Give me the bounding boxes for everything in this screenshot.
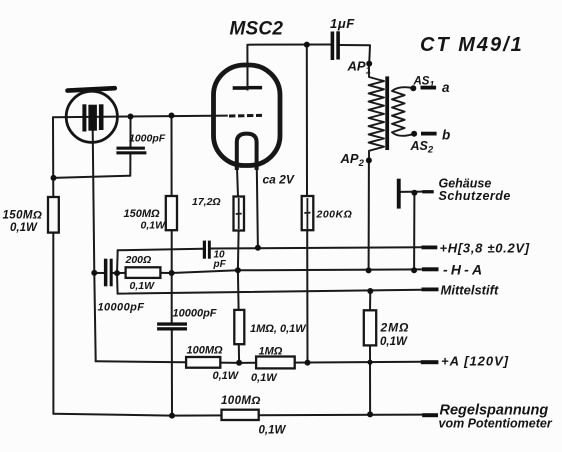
capacitor 10000pF horizontal plates bbox=[157, 322, 187, 325]
resistor 150M 0.1W left box bbox=[48, 197, 59, 233]
node Regelspannung 2M junction bbox=[367, 411, 373, 417]
resistor 200K box bbox=[302, 196, 314, 230]
svg-text:MSC2: MSC2 bbox=[230, 19, 284, 40]
node 1000pF top junction bbox=[128, 114, 134, 120]
resistor 17.2 ohm box bbox=[234, 197, 245, 231]
svg-text:150MΩ: 150MΩ bbox=[3, 210, 43, 222]
capsule K1 circle bbox=[66, 91, 117, 142]
capacitor 10000pF plates (vertical pair) bbox=[104, 259, 108, 287]
resistor 1M box bbox=[256, 357, 295, 369]
wire cathode right leg to +H line bbox=[257, 168, 258, 248]
wire 2M branch vertical bbox=[369, 291, 371, 310]
tube V1 envelope bbox=[214, 65, 281, 166]
node Gehaeuse -H-A junction bbox=[411, 267, 417, 273]
svg-text:+H[3,8 ±0.2V]: +H[3,8 ±0.2V] bbox=[440, 241, 530, 256]
node Gehaeuse junction bbox=[411, 190, 417, 196]
wire left vertical: capsule left down to 150M and Regelspannung corner bbox=[52, 117, 54, 197]
svg-text:200KΩ: 200KΩ bbox=[316, 209, 353, 221]
wire 1000pF top branch bbox=[130, 117, 132, 148]
svg-text:2MΩ: 2MΩ bbox=[380, 321, 410, 335]
svg-text:100MΩ: 100MΩ bbox=[221, 395, 261, 407]
capsule K1 electrode left bar bbox=[82, 104, 86, 131]
capsule K1 electrode middle bar bbox=[88, 105, 97, 131]
svg-text:10000pF: 10000pF bbox=[98, 302, 145, 314]
terminal Regelspannung bar bbox=[422, 413, 438, 417]
svg-text:pF: pF bbox=[213, 259, 227, 270]
node AP2 -H-A junction bbox=[366, 267, 372, 273]
wire mid 150M branch vertical bbox=[171, 116, 173, 197]
svg-text:Schutzerde: Schutzerde bbox=[439, 189, 511, 203]
wire grid line: capsule to tube grid bbox=[53, 116, 227, 118]
svg-text:0,1W: 0,1W bbox=[380, 336, 408, 348]
svg-text:b: b bbox=[442, 128, 450, 143]
chassis bar Gehaeuse Schutzerde bbox=[397, 179, 401, 209]
wire AP2 down to -H-A bbox=[368, 160, 370, 270]
node cathode +H junction bbox=[255, 245, 261, 251]
node AS2 bbox=[411, 131, 417, 137]
tube V1 anode lead inside bbox=[247, 65, 249, 91]
resistor 100M bottom box bbox=[222, 410, 259, 420]
wire 1000pF bottom to left junction bbox=[54, 154, 131, 178]
resistor 150M 0.1W mid box bbox=[166, 196, 177, 230]
node anode line 200K junction bbox=[304, 42, 310, 48]
svg-text:1MΩ: 1MΩ bbox=[259, 346, 283, 358]
node AP1 bbox=[366, 61, 372, 67]
svg-text:0,1W: 0,1W bbox=[213, 370, 240, 382]
capsule K1 top plate bar bbox=[68, 88, 115, 90]
node 200K +A junction bbox=[305, 360, 311, 366]
terminal +H bar bbox=[422, 246, 438, 250]
svg-text:1MΩ, 0,1W: 1MΩ, 0,1W bbox=[250, 323, 307, 335]
resistor 100M box bbox=[186, 357, 220, 368]
tube V1 grid dashes bbox=[229, 114, 262, 118]
resistor 2M 0.1W box bbox=[364, 310, 376, 345]
capsule K1 electrode right bar bbox=[99, 104, 104, 130]
terminal Gehaeuse bar bbox=[422, 190, 433, 193]
wire Regelspannung line bbox=[53, 414, 422, 416]
svg-text:10000pF: 10000pF bbox=[173, 308, 217, 320]
resistor 200 ohm box bbox=[126, 267, 161, 278]
svg-text:1000pF: 1000pF bbox=[129, 133, 166, 145]
node 2M +A junction bbox=[367, 360, 372, 365]
wire Gehaeuse link and down to -H-A bbox=[401, 191, 423, 193]
node AS1 bbox=[410, 85, 416, 91]
node A capsule junction bbox=[91, 270, 97, 276]
terminal a bar bbox=[421, 86, 437, 90]
wire 1M 0.1W branch vertical bbox=[237, 270, 240, 310]
transformer T1 secondary winding bbox=[392, 87, 414, 136]
svg-text:200Ω: 200Ω bbox=[125, 254, 152, 266]
node left 1000pF junction bbox=[51, 175, 57, 181]
svg-text:+A [120V]: +A [120V] bbox=[441, 354, 509, 369]
transformer T1 core bbox=[385, 76, 389, 150]
svg-text:Mittelstift: Mittelstift bbox=[441, 283, 499, 298]
wire anode lead and top line to 1uF bbox=[247, 45, 330, 87]
svg-text:1μF: 1μF bbox=[330, 16, 355, 31]
transformer T1 primary winding bbox=[369, 64, 384, 161]
svg-text:0,1W: 0,1W bbox=[10, 222, 38, 234]
svg-text:0,1W: 0,1W bbox=[259, 425, 287, 437]
node 150M mid top junction bbox=[169, 113, 175, 119]
node Regelspannung left junction bbox=[169, 413, 175, 419]
wire cathode left leg to 17.2 ohm bbox=[237, 168, 238, 197]
tube V1 cathode arch bbox=[237, 134, 257, 170]
wire node B vertical (+H to Mittelstift bends) bbox=[116, 250, 119, 293]
capacitor 1uF plates bbox=[331, 32, 335, 61]
wire 10000pF left link from node A bbox=[94, 272, 104, 274]
tube V1 anode plate bbox=[233, 86, 247, 90]
resistor 1M 0.1W vertical box bbox=[234, 310, 244, 344]
svg-text:-H-A: -H-A bbox=[443, 262, 485, 278]
svg-text:vom Potentiometer: vom Potentiometer bbox=[439, 417, 553, 431]
svg-text:0,1W: 0,1W bbox=[130, 280, 156, 292]
wire +A line bbox=[96, 361, 423, 363]
terminal +A bar bbox=[421, 360, 439, 364]
node C 200 ohm right junction bbox=[169, 270, 175, 276]
svg-text:0,1W: 0,1W bbox=[141, 220, 167, 232]
svg-text:ca 2V: ca 2V bbox=[263, 173, 295, 187]
svg-text:100MΩ: 100MΩ bbox=[187, 345, 224, 357]
wire 200 ohm row / -H-A line bbox=[117, 272, 126, 274]
svg-text:a: a bbox=[442, 80, 450, 95]
capacitor 1000pF plates bbox=[117, 147, 145, 150]
node 2M Mittelstift junction bbox=[367, 288, 373, 294]
svg-text:CT M49/1: CT M49/1 bbox=[420, 34, 524, 56]
wire 1uF to transformer AP1 corner bbox=[340, 45, 370, 64]
svg-text:0,1W: 0,1W bbox=[251, 372, 278, 384]
terminal Mittelstift bar bbox=[422, 288, 439, 292]
node AP2 bbox=[366, 157, 372, 163]
wire +H line bbox=[118, 249, 203, 251]
svg-text:150MΩ: 150MΩ bbox=[124, 208, 161, 220]
wire Mittelstift line bbox=[118, 290, 423, 294]
node 17.2 bottom -H-A junction bbox=[235, 267, 241, 273]
wire 200K branch vertical bbox=[306, 45, 308, 196]
node B 10000pF junction bbox=[114, 270, 120, 276]
node 1M +A junction bbox=[236, 360, 242, 366]
terminal b bar bbox=[421, 132, 437, 136]
capacitor 10pF plates bbox=[203, 241, 206, 259]
svg-text:17,2Ω: 17,2Ω bbox=[192, 196, 221, 208]
wire capsule centre electrode down to node A and +A corner bbox=[93, 130, 96, 361]
terminal -H-A bar bbox=[422, 267, 439, 271]
